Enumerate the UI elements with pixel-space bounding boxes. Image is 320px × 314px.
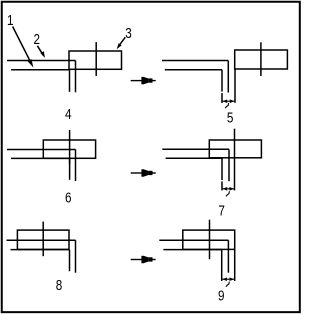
svg-text:1: 1: [7, 12, 14, 29]
svg-text:7: 7: [218, 202, 225, 219]
svg-text:6: 6: [65, 189, 72, 206]
svg-text:4: 4: [65, 106, 72, 123]
svg-text:2: 2: [33, 31, 40, 48]
svg-text:3: 3: [125, 25, 132, 42]
svg-text:5: 5: [227, 109, 234, 126]
svg-text:9: 9: [218, 287, 225, 304]
svg-text:8: 8: [56, 277, 63, 294]
